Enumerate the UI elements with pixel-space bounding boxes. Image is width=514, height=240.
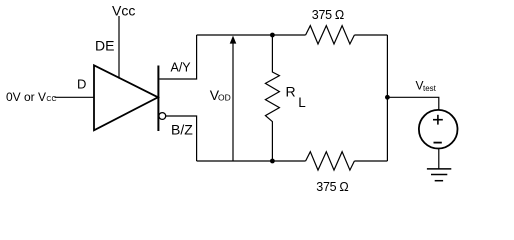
- wire: top rail left: [197, 34, 306, 36]
- svg-text:0V or V: 0V or V: [6, 90, 46, 104]
- svg-text:375 Ω: 375 Ω: [316, 180, 348, 194]
- svg-text:B/Z: B/Z: [171, 122, 193, 138]
- wire: to Vtest source: [387, 97, 438, 110]
- svg-text:DE: DE: [95, 37, 114, 53]
- svg-text:D: D: [77, 76, 86, 91]
- label: plus sign: [433, 115, 443, 125]
- wire: Vcc supply stub: [118, 16, 120, 79]
- resistor RL: [265, 35, 279, 161]
- svg-text:OD: OD: [218, 92, 231, 102]
- wire: D input: [55, 96, 95, 98]
- svg-text:R: R: [286, 84, 296, 100]
- label: Vtest: [416, 78, 437, 93]
- label: 0V or Vcc: [6, 90, 57, 104]
- svg-text:L: L: [298, 95, 306, 110]
- inverting bubble on B/Z: [159, 113, 166, 120]
- measurement arrow VOD: [230, 36, 237, 161]
- wire: top rail right: [354, 34, 387, 36]
- wire: A/Y output: [159, 35, 196, 79]
- voltage source V1: [419, 110, 458, 149]
- wire: B/Z output: [166, 116, 197, 161]
- output bar: [157, 66, 159, 132]
- label: R L: [286, 84, 307, 111]
- label: VOD: [210, 87, 231, 103]
- resistor R 375ohm bottom: [306, 152, 355, 170]
- svg-text:A/Y: A/Y: [171, 61, 192, 75]
- wire: bottom rail right: [354, 160, 387, 162]
- svg-text:375 Ω: 375 Ω: [312, 8, 344, 22]
- wire: right rail: [386, 35, 388, 161]
- svg-text:Vcc: Vcc: [112, 2, 135, 18]
- resistor R 375ohm top: [306, 26, 355, 44]
- node: junction dot RL top: [270, 33, 275, 38]
- driver U1 (triangle buffer): [94, 65, 158, 130]
- wire: source to ground: [438, 149, 440, 169]
- node: junction dot Vtest: [385, 95, 390, 100]
- svg-text:test: test: [423, 84, 437, 93]
- ground: [427, 169, 451, 181]
- node: junction dot RL bottom: [270, 159, 275, 164]
- wire: bottom rail left: [197, 160, 306, 162]
- label: minus sign: [434, 142, 442, 144]
